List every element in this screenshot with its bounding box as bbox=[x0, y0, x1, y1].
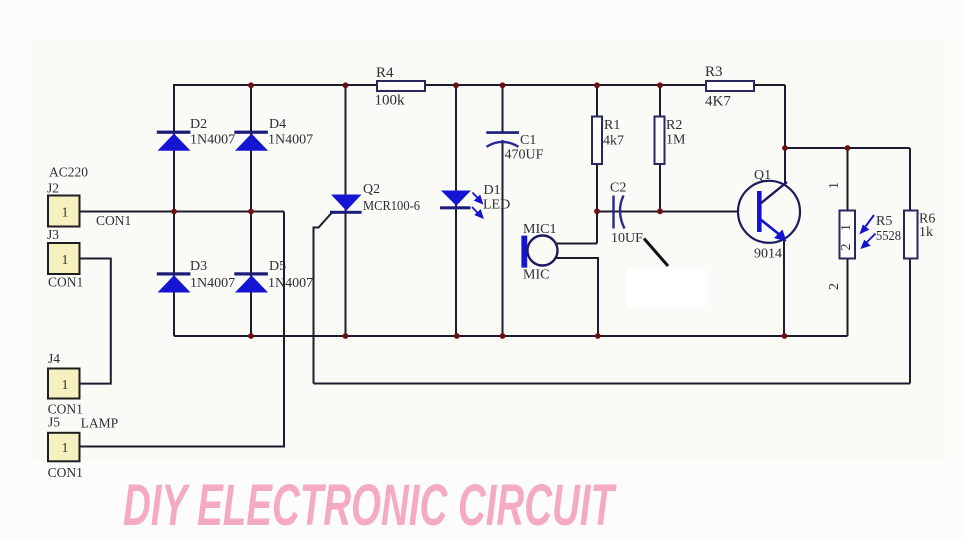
svg-text:R3: R3 bbox=[705, 64, 723, 80]
svg-text:MIC: MIC bbox=[523, 268, 549, 283]
svg-text:R4: R4 bbox=[376, 65, 394, 81]
svg-text:D3: D3 bbox=[190, 259, 207, 274]
diode D2 1N4007 bbox=[157, 117, 235, 151]
svg-text:1: 1 bbox=[62, 252, 69, 267]
wire R1 column bbox=[596, 85, 598, 244]
D1 emission arrows bbox=[472, 193, 483, 218]
wire ground rail bbox=[174, 335, 848, 337]
wire Q2 gate bbox=[314, 213, 333, 384]
junction R2 column / top rail bbox=[657, 82, 663, 88]
svg-text:4k7: 4k7 bbox=[603, 133, 624, 148]
wire R5 column bbox=[847, 148, 849, 336]
svg-text:1N4007: 1N4007 bbox=[190, 276, 235, 291]
svg-text:9014: 9014 bbox=[754, 247, 782, 262]
svg-text:R5: R5 bbox=[876, 214, 892, 229]
wire base row node B bbox=[597, 211, 739, 213]
svg-text:J2: J2 bbox=[47, 181, 59, 196]
R5 light arrows bbox=[861, 215, 876, 248]
resistor R6 1k bbox=[904, 211, 935, 259]
svg-text:1N4007: 1N4007 bbox=[190, 133, 235, 148]
junction Q2 column / ground rail bbox=[343, 333, 349, 339]
svg-text:4K7: 4K7 bbox=[705, 93, 731, 109]
junction mic lead / ground rail bbox=[595, 333, 601, 339]
svg-text:R2: R2 bbox=[666, 118, 682, 133]
svg-text:1N4007: 1N4007 bbox=[268, 276, 313, 291]
svg-text:MCR100-6: MCR100-6 bbox=[363, 199, 420, 214]
svg-text:1N4007: 1N4007 bbox=[268, 133, 313, 148]
svg-text:J3: J3 bbox=[47, 227, 59, 242]
junction Q1 emitter / ground rail bbox=[782, 333, 788, 339]
junction AC220 node right bbox=[248, 209, 254, 215]
junction Q2 column / top rail bbox=[343, 82, 349, 88]
wire R3 to Q1 collector bbox=[784, 85, 786, 185]
transistor Q1 9014 bbox=[738, 168, 800, 262]
connector J2 bbox=[47, 165, 131, 229]
wire top rail bbox=[174, 84, 785, 86]
resistor R4 100k bbox=[375, 65, 426, 109]
junction D1 column / top rail bbox=[453, 82, 459, 88]
svg-text:470UF: 470UF bbox=[505, 147, 544, 162]
svg-text:1: 1 bbox=[62, 440, 69, 455]
svg-text:Q2: Q2 bbox=[363, 182, 380, 197]
white patch bbox=[627, 268, 705, 308]
wire D1 column bbox=[455, 85, 457, 336]
junction collector node bbox=[782, 145, 788, 151]
wire Q2 anode column bbox=[345, 85, 347, 336]
svg-text:J4: J4 bbox=[48, 351, 60, 366]
capacitor C1 470UF bbox=[486, 133, 543, 163]
wire mic top lead bbox=[557, 243, 598, 245]
svg-text:1: 1 bbox=[62, 377, 69, 392]
wire J2 branch down to J5 bbox=[80, 212, 284, 447]
svg-text:R1: R1 bbox=[604, 118, 620, 133]
svg-text:1: 1 bbox=[839, 224, 854, 231]
diode D4 1N4007 bbox=[234, 117, 313, 151]
svg-text:J5: J5 bbox=[48, 415, 60, 430]
svg-text:MIC1: MIC1 bbox=[523, 222, 556, 237]
wire mic bottom lead bbox=[557, 258, 599, 336]
svg-text:Q1: Q1 bbox=[754, 168, 771, 183]
svg-text:AC220: AC220 bbox=[49, 165, 88, 180]
stray diagonal pen mark bbox=[644, 239, 668, 267]
junction D5 column / ground rail bbox=[248, 333, 254, 339]
svg-text:5528: 5528 bbox=[876, 229, 901, 244]
svg-text:LED: LED bbox=[483, 198, 510, 213]
junction R1 column / top rail bbox=[594, 82, 600, 88]
wire R6 column bbox=[909, 148, 911, 384]
diode D5 1N4007 bbox=[234, 259, 313, 293]
connector J5 LAMP bbox=[48, 415, 119, 481]
junction R1 / C2 node bbox=[594, 208, 600, 214]
svg-text:10UF: 10UF bbox=[611, 231, 643, 246]
wire R2 column bbox=[659, 85, 661, 212]
resistor R3 4K7 bbox=[705, 64, 754, 109]
svg-text:D2: D2 bbox=[190, 117, 207, 132]
svg-text:CON1: CON1 bbox=[48, 465, 83, 480]
svg-text:D5: D5 bbox=[269, 259, 286, 274]
svg-text:100k: 100k bbox=[375, 93, 406, 109]
capacitor C2 10UF bbox=[610, 181, 643, 247]
wire bottom return rail bbox=[314, 383, 911, 385]
svg-text:2: 2 bbox=[839, 244, 854, 251]
svg-text:1: 1 bbox=[827, 182, 842, 189]
junction R2 / base node bbox=[657, 208, 663, 214]
microphone MIC1 bbox=[521, 222, 557, 283]
svg-text:DIY ELECTRONIC CIRCUIT: DIY ELECTRONIC CIRCUIT bbox=[123, 473, 617, 538]
photoresistor R5 5528 bbox=[840, 211, 902, 259]
junction R5 top node bbox=[845, 145, 851, 151]
junction D1 column / ground rail bbox=[454, 333, 460, 339]
resistor R1 4k7 bbox=[592, 117, 624, 165]
svg-text:D4: D4 bbox=[269, 117, 286, 132]
junction D4 column / top rail bbox=[248, 82, 254, 88]
connector J3 bbox=[47, 227, 83, 290]
diode D3 1N4007 bbox=[157, 259, 235, 293]
wire C1 column bbox=[502, 85, 504, 132]
svg-text:1: 1 bbox=[62, 205, 69, 220]
SCR Q2 MCR100-6 bbox=[330, 182, 420, 214]
svg-text:1M: 1M bbox=[666, 133, 686, 148]
wire J2 to bridge node AC220 bbox=[80, 211, 284, 213]
LED D1 bbox=[440, 183, 510, 213]
junction C1 column / top rail bbox=[500, 82, 506, 88]
svg-text:D1: D1 bbox=[484, 183, 501, 198]
junction AC220 node left bbox=[171, 209, 177, 215]
wire collector node row bbox=[785, 147, 910, 149]
svg-text:CON1: CON1 bbox=[48, 275, 83, 290]
wire J3 to J4 bbox=[80, 259, 111, 384]
wire Q1 emitter bbox=[783, 240, 785, 336]
svg-text:2: 2 bbox=[827, 283, 842, 290]
junction C1 column / ground rail bbox=[500, 333, 506, 339]
svg-text:C2: C2 bbox=[610, 181, 626, 196]
wire D4/D5 column bbox=[250, 85, 252, 336]
svg-text:CON1: CON1 bbox=[96, 213, 131, 228]
svg-text:C1: C1 bbox=[520, 133, 536, 148]
wire D2/D3 column bbox=[173, 84, 175, 336]
resistor R2 1M bbox=[655, 117, 687, 165]
svg-text:LAMP: LAMP bbox=[81, 416, 119, 431]
svg-text:1k: 1k bbox=[919, 225, 933, 240]
connector J4 bbox=[48, 351, 83, 417]
